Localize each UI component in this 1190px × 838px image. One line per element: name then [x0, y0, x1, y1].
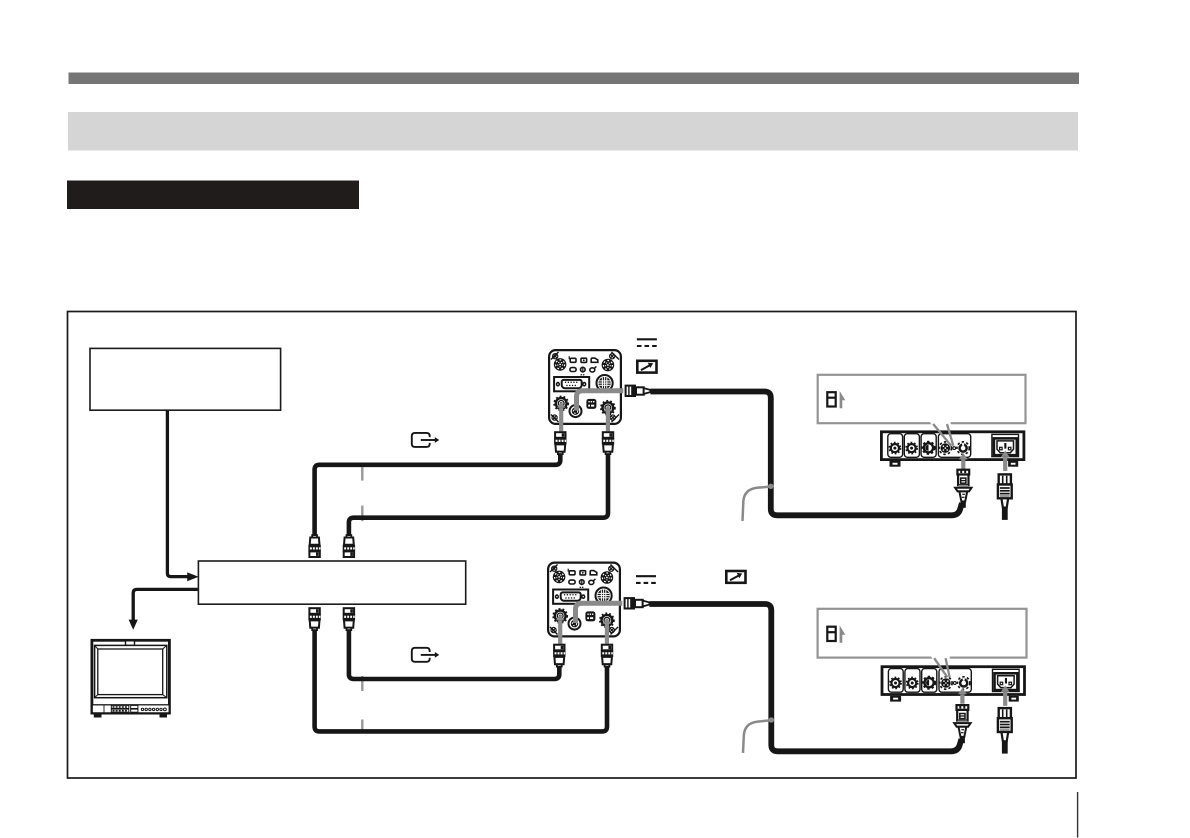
AC plug 1	[998, 474, 1012, 520]
dashed tie line upper	[361, 465, 363, 481]
camera 1 cable junction dot	[768, 484, 773, 489]
section title black bar	[67, 181, 359, 210]
header dark gray rule	[69, 73, 1080, 85]
camera 2 CCU cable	[649, 604, 961, 751]
arrow from label box to remote unit	[167, 410, 188, 576]
gray arrow into AC inlet 2	[1001, 685, 1010, 691]
AC plug 2	[998, 708, 1012, 754]
gray arrow into AC inlet 1	[1001, 451, 1010, 457]
gray arrow into DC connector 1	[959, 453, 968, 459]
BNC plug into remote unit top B	[343, 535, 355, 557]
camera adapter unit 2	[882, 667, 1025, 702]
camera 1 rear panel	[549, 350, 650, 454]
camera 1 gray hook wire	[743, 487, 771, 521]
header light gray band	[68, 112, 1078, 151]
arrow from remote unit to monitor	[133, 589, 198, 620]
camera 2 gray hook wire	[743, 720, 771, 753]
page icon in callout 1	[827, 391, 845, 408]
dashed tie line lower	[361, 676, 363, 691]
diagram frame	[68, 312, 1077, 779]
camera 2 rear panel	[548, 563, 649, 667]
legend lines camera 2	[636, 576, 656, 583]
cable clamp icon 1	[412, 433, 440, 447]
camera 1 video cable A	[315, 454, 561, 535]
remote-to-camera2 cable A	[315, 630, 607, 732]
CCU power plug 2	[954, 705, 970, 743]
remote-to-camera2 cable B	[349, 630, 559, 679]
remote control unit box	[198, 561, 465, 604]
BNC plug into remote unit top A	[308, 535, 320, 557]
video monitor	[92, 640, 169, 717]
BNC plug from remote unit bottom B	[343, 608, 355, 630]
label box top left	[90, 348, 281, 410]
arrow box camera 2	[726, 571, 745, 583]
arrow box camera 1	[637, 361, 656, 373]
callout box 2	[818, 609, 1027, 658]
camera 1 CCU cable	[650, 392, 962, 516]
page icon in callout 2	[827, 625, 845, 642]
gray arrow into DC connector 2	[958, 688, 967, 694]
BNC plug from remote unit bottom A	[308, 608, 320, 630]
camera adapter unit 1	[881, 432, 1024, 467]
legend lines camera 1	[637, 339, 657, 346]
callout box 1	[818, 375, 1026, 423]
callout tail 2	[934, 658, 947, 677]
cable clamp icon 2	[412, 648, 440, 662]
CCU power plug 1	[955, 470, 971, 508]
camera 2 cable junction dot	[769, 717, 774, 722]
camera 1 video cable B	[349, 454, 608, 535]
callout tail 1	[933, 424, 951, 446]
page edge tick bottom right	[1077, 792, 1079, 838]
